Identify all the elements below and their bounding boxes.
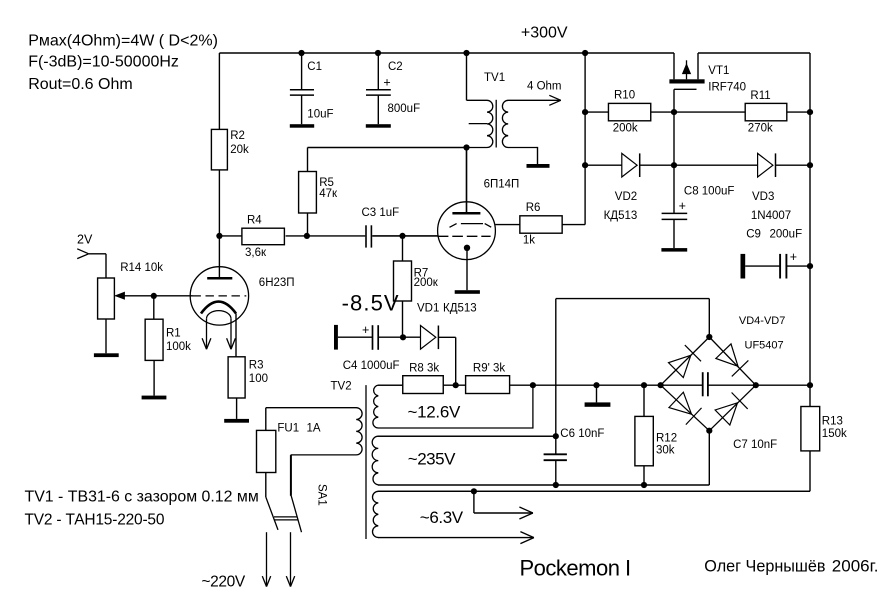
svg-text:C1: C1 xyxy=(307,61,322,73)
svg-text:TV1 - ТВ31-6 с зазором 0.12 мм: TV1 - ТВ31-6 с зазором 0.12 мм xyxy=(25,489,259,506)
svg-text:R12: R12 xyxy=(656,432,677,444)
svg-text:R1: R1 xyxy=(166,327,181,339)
svg-text:КД513: КД513 xyxy=(443,302,477,314)
svg-text:R13: R13 xyxy=(822,416,843,428)
svg-text:C6 10nF: C6 10nF xyxy=(560,428,604,440)
svg-text:R4: R4 xyxy=(247,214,262,226)
svg-text:2006г.: 2006г. xyxy=(832,557,879,576)
svg-text:C7 10nF: C7 10nF xyxy=(733,439,777,451)
svg-text:4 Ohm: 4 Ohm xyxy=(527,81,562,93)
svg-text:C9: C9 xyxy=(746,229,761,241)
svg-text:VD2: VD2 xyxy=(615,191,637,203)
svg-text:100k: 100k xyxy=(166,341,191,353)
svg-text:R6: R6 xyxy=(526,202,541,214)
svg-text:Rout=0.6 Ohm: Rout=0.6 Ohm xyxy=(28,76,133,93)
svg-text:~220V: ~220V xyxy=(202,573,246,590)
svg-text:-8.5V: -8.5V xyxy=(342,291,400,316)
svg-text:R10: R10 xyxy=(614,90,635,102)
svg-text:~6.3V: ~6.3V xyxy=(420,508,464,527)
svg-text:Pмax(4Ohm)=4W ( D<2%): Pмax(4Ohm)=4W ( D<2%) xyxy=(28,33,218,50)
svg-text:6П14П: 6П14П xyxy=(484,178,520,190)
svg-text:C4 1000uF: C4 1000uF xyxy=(343,360,400,372)
svg-text:2V: 2V xyxy=(77,233,93,247)
svg-text:R2: R2 xyxy=(230,130,245,142)
svg-text:FU1: FU1 xyxy=(277,423,299,435)
svg-text:1N4007: 1N4007 xyxy=(751,210,791,222)
svg-text:F(-3dB)=10-50000Hz: F(-3dB)=10-50000Hz xyxy=(28,54,179,71)
svg-text:TV1: TV1 xyxy=(484,72,505,84)
svg-text:C3 1uF: C3 1uF xyxy=(362,207,400,219)
svg-text:3,6к: 3,6к xyxy=(245,247,267,259)
svg-text:~12.6V: ~12.6V xyxy=(408,403,462,422)
svg-text:6Н23П: 6Н23П xyxy=(259,277,295,289)
svg-text:C8 100uF: C8 100uF xyxy=(684,185,735,197)
svg-text:1A: 1A xyxy=(307,423,321,435)
svg-text:R14 10k: R14 10k xyxy=(120,262,163,274)
svg-text:+: + xyxy=(790,250,797,264)
svg-text:200к: 200к xyxy=(414,277,439,289)
svg-text:VD4-VD7: VD4-VD7 xyxy=(739,315,785,327)
svg-text:IRF740: IRF740 xyxy=(708,82,746,94)
svg-text:SA1: SA1 xyxy=(316,484,328,506)
svg-text:TV2 - ТАН15-220-50: TV2 - ТАН15-220-50 xyxy=(25,512,165,529)
svg-text:UF5407: UF5407 xyxy=(745,340,784,352)
svg-text:30k: 30k xyxy=(656,445,675,457)
svg-text:200uF: 200uF xyxy=(770,229,803,241)
svg-text:R8 3k: R8 3k xyxy=(409,363,439,375)
svg-text:R5: R5 xyxy=(319,177,334,189)
svg-text:TV2: TV2 xyxy=(331,381,352,393)
svg-text:Олег Чернышёв: Олег Чернышёв xyxy=(704,558,825,576)
svg-text:47к: 47к xyxy=(319,188,338,200)
svg-text:+: + xyxy=(362,323,369,337)
svg-text:100: 100 xyxy=(249,373,268,385)
svg-text:+: + xyxy=(679,199,686,213)
svg-text:20k: 20k xyxy=(230,144,249,156)
svg-text:C2: C2 xyxy=(388,61,403,73)
svg-text:+300V: +300V xyxy=(521,24,568,41)
svg-text:~235V: ~235V xyxy=(408,450,456,469)
svg-text:КД513: КД513 xyxy=(604,210,638,222)
svg-text:Pockemon I: Pockemon I xyxy=(520,556,631,581)
svg-text:VT1: VT1 xyxy=(708,65,729,77)
svg-text:R9' 3k: R9' 3k xyxy=(473,363,505,375)
svg-text:VD3: VD3 xyxy=(752,191,774,203)
svg-text:R11: R11 xyxy=(750,90,770,102)
svg-text:270k: 270k xyxy=(748,123,773,135)
svg-text:10uF: 10uF xyxy=(307,108,333,120)
svg-text:VD1: VD1 xyxy=(417,302,439,314)
svg-text:800uF: 800uF xyxy=(388,103,421,115)
svg-text:150k: 150k xyxy=(822,428,847,440)
svg-text:+: + xyxy=(383,75,390,89)
svg-text:1k: 1k xyxy=(523,234,535,246)
svg-text:R3: R3 xyxy=(249,360,264,372)
svg-text:200k: 200k xyxy=(613,122,638,134)
